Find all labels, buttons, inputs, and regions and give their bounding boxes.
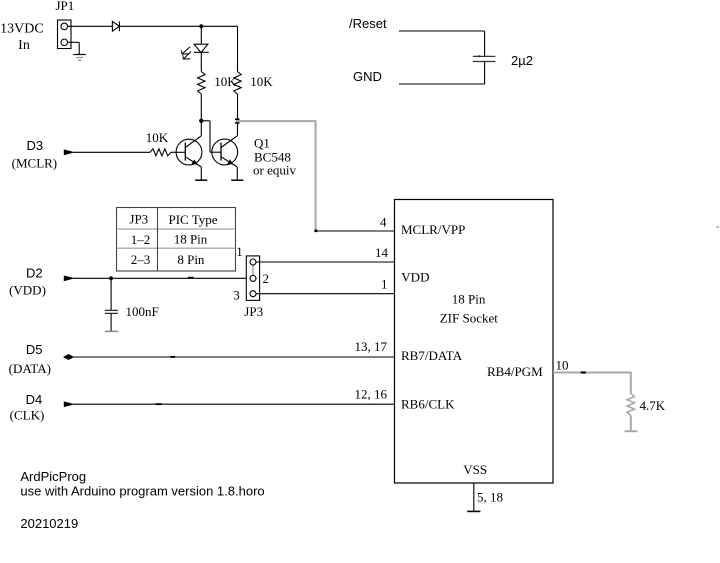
svg-text:RB7/DATA: RB7/DATA xyxy=(401,348,463,363)
svg-text:100nF: 100nF xyxy=(126,304,159,319)
svg-text:JP1: JP1 xyxy=(56,0,75,13)
svg-text:use with Arduino program versi: use with Arduino program version 1.8.hor… xyxy=(20,483,264,498)
svg-text:JP3: JP3 xyxy=(129,212,148,227)
svg-text:D4: D4 xyxy=(26,392,43,407)
svg-text:(CLK): (CLK) xyxy=(10,408,45,423)
svg-text:20210219: 20210219 xyxy=(20,516,78,531)
svg-text:1–2: 1–2 xyxy=(131,232,151,247)
svg-text:(DATA): (DATA) xyxy=(9,361,51,376)
svg-text:MCLR/VPP: MCLR/VPP xyxy=(401,222,465,237)
svg-text:12, 16: 12, 16 xyxy=(355,387,388,402)
svg-text:10K: 10K xyxy=(146,130,169,145)
svg-text:RB6/CLK: RB6/CLK xyxy=(401,396,455,411)
svg-text:2–3: 2–3 xyxy=(131,252,151,267)
svg-text:PIC Type: PIC Type xyxy=(168,212,217,227)
svg-text:18 Pin: 18 Pin xyxy=(174,232,208,247)
svg-text:VSS: VSS xyxy=(463,462,487,477)
svg-text:18 Pin: 18 Pin xyxy=(452,292,486,307)
svg-text:D5: D5 xyxy=(26,342,43,357)
svg-text:1: 1 xyxy=(236,244,243,259)
svg-text:(MCLR): (MCLR) xyxy=(12,155,58,170)
svg-text:3: 3 xyxy=(233,288,240,303)
svg-text:(VDD): (VDD) xyxy=(9,282,46,297)
svg-text:13, 17: 13, 17 xyxy=(355,339,388,354)
svg-text:4.7K: 4.7K xyxy=(640,398,666,413)
svg-text:VDD: VDD xyxy=(401,270,429,285)
svg-text:10K: 10K xyxy=(250,74,273,89)
svg-text:2µ2: 2µ2 xyxy=(511,53,533,68)
svg-text:In: In xyxy=(18,38,30,53)
svg-text:1: 1 xyxy=(381,277,388,292)
svg-text:GND: GND xyxy=(353,69,382,84)
svg-text:5, 18: 5, 18 xyxy=(477,490,503,505)
svg-text:14: 14 xyxy=(375,245,389,260)
svg-text:10K: 10K xyxy=(214,74,237,89)
svg-text:D2: D2 xyxy=(26,266,43,281)
svg-text:4: 4 xyxy=(380,214,387,229)
svg-text:2: 2 xyxy=(263,271,270,286)
svg-text:JP3: JP3 xyxy=(244,304,263,319)
svg-text:10: 10 xyxy=(556,358,569,373)
svg-text:D3: D3 xyxy=(26,138,43,153)
svg-text:ZIF Socket: ZIF Socket xyxy=(440,311,499,326)
svg-text:ArdPicProg: ArdPicProg xyxy=(20,469,86,484)
svg-text:8 Pin: 8 Pin xyxy=(177,252,205,267)
svg-text:Q1: Q1 xyxy=(254,136,270,151)
svg-text:/Reset: /Reset xyxy=(349,16,387,31)
svg-text:or equiv: or equiv xyxy=(253,162,296,177)
svg-text:13VDC: 13VDC xyxy=(0,22,44,37)
svg-text:RB4/PGM: RB4/PGM xyxy=(487,364,543,379)
